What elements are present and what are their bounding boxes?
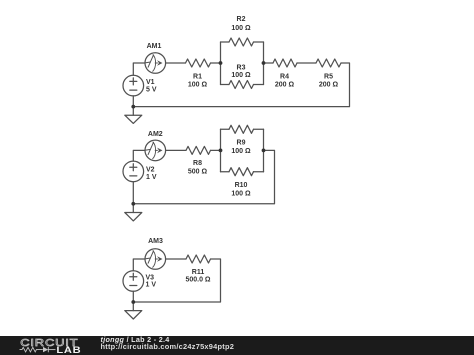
svg-text:R4: R4 [280, 74, 289, 81]
svg-text:http://circuitlab.com/c24z75x9: http://circuitlab.com/c24z75x94ptp2 [101, 342, 235, 351]
svg-text:R8: R8 [193, 160, 202, 167]
svg-text:R10: R10 [235, 182, 248, 189]
svg-text:5 V: 5 V [146, 87, 157, 94]
svg-text:100 Ω: 100 Ω [231, 148, 251, 155]
svg-text:LAB: LAB [56, 346, 81, 355]
svg-text:R3: R3 [237, 65, 246, 72]
svg-text:R5: R5 [324, 74, 333, 81]
svg-text:R2: R2 [237, 16, 246, 23]
svg-text:R11: R11 [192, 269, 205, 276]
svg-text:200 Ω: 200 Ω [319, 81, 339, 88]
svg-text:AM3: AM3 [148, 238, 163, 245]
svg-text:1 V: 1 V [146, 174, 157, 181]
svg-text:100 Ω: 100 Ω [231, 72, 251, 79]
svg-text:V3: V3 [146, 275, 155, 282]
svg-text:100 Ω: 100 Ω [188, 81, 208, 88]
svg-text:500.0 Ω: 500.0 Ω [185, 277, 210, 284]
svg-text:100 Ω: 100 Ω [231, 191, 251, 198]
svg-text:1 V: 1 V [146, 282, 157, 289]
svg-text:V1: V1 [146, 79, 155, 86]
svg-text:AM1: AM1 [147, 43, 162, 50]
svg-text:V2: V2 [146, 167, 155, 174]
svg-text:500 Ω: 500 Ω [188, 169, 208, 176]
svg-text:R1: R1 [193, 74, 202, 81]
svg-text:R9: R9 [237, 140, 246, 147]
svg-text:AM2: AM2 [148, 131, 163, 138]
svg-text:100 Ω: 100 Ω [231, 25, 251, 32]
svg-text:200 Ω: 200 Ω [275, 81, 295, 88]
